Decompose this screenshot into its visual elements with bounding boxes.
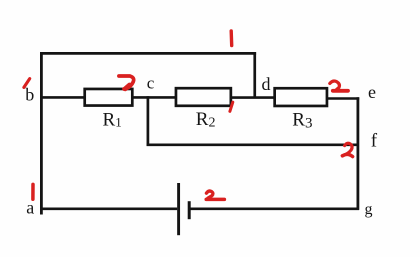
wire node d vertical (top wire down to d) [253, 52, 256, 98]
svg-text:e: e [368, 82, 376, 102]
red annotation "1" at node a [31, 184, 35, 199]
resistor R1 [85, 89, 133, 106]
wire R2 to R3 (through node d) [230, 96, 276, 99]
wire node b to R1 [40, 96, 85, 99]
red annotation "2" at node f [342, 143, 352, 156]
red annotation "2" above resistor R3 right [330, 81, 348, 91]
red annotation "1" above top wire [229, 31, 233, 46]
red annotation "1" slash at resistor R2 right [230, 102, 233, 111]
resistor R3 [275, 88, 327, 106]
wire left vertical (b to a) [40, 52, 43, 214]
svg-text:g: g [365, 201, 373, 218]
wire node c vertical down to f-wire [147, 96, 150, 146]
wire bottom right (battery to g) [191, 207, 360, 210]
svg-text:b: b [25, 84, 34, 104]
svg-text:c: c [147, 74, 155, 93]
wire node f horizontal (c-branch to right vertical) [147, 143, 359, 146]
battery long plate [177, 183, 180, 235]
wire bottom left (a to battery) [40, 207, 177, 210]
red annotation "2" above resistor R1 [119, 76, 134, 89]
wire right vertical (e through f to g) [356, 97, 359, 210]
wire R1 to R2 (through node c) [132, 96, 177, 99]
wire top (b to d) [40, 52, 256, 55]
red annotation "2" at battery [206, 191, 224, 199]
svg-text:d: d [262, 74, 271, 94]
resistor R2 [176, 88, 231, 106]
svg-text:f: f [371, 130, 378, 151]
battery short plate [188, 201, 191, 219]
red annotation "1" slash at node b [24, 79, 30, 88]
wire R3 to node e [326, 97, 359, 100]
